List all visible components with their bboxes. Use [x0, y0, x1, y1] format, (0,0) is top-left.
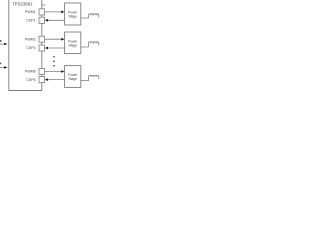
arrowhead into U1 left [4, 43, 7, 46]
svg-text:CSP1: CSP1 [26, 19, 35, 23]
svg-text:CSP6: CSP6 [26, 78, 35, 82]
arrowhead CSP6 into U1 [45, 78, 48, 81]
pin box PWM2 [39, 36, 45, 42]
arrowhead CSP1 into U1 [45, 19, 48, 22]
wire CSP6 from power stage 3 [48, 79, 65, 81]
svg-text:Stage: Stage [69, 15, 78, 19]
wire SW3 output [81, 77, 89, 81]
arrowhead PWM6 into power stage 3 [61, 70, 64, 73]
pin box CSP1 [39, 17, 45, 23]
inductor L2 [88, 42, 98, 46]
wire CSP2 from power stage 2 [48, 47, 65, 49]
arrowhead PWM1 into power stage 1 [61, 11, 64, 14]
arrowhead 2 into U1 left [4, 66, 7, 69]
wire SW2 output [81, 43, 89, 47]
IC U1 controller box (cropped at top) [9, 0, 42, 91]
arrowhead PWM2 into power stage 2 [61, 38, 64, 41]
inductor L3 [88, 75, 98, 79]
wire PWM1 to power stage 1 [45, 11, 62, 13]
power stage 1 box [65, 3, 81, 25]
svg-text:TPS53681: TPS53681 [12, 1, 33, 6]
svg-text:PWM6: PWM6 [25, 70, 36, 74]
wire SW1 output [81, 15, 89, 18]
svg-text:CSP2: CSP2 [26, 46, 35, 50]
wire PWM6 to power stage 3 [45, 71, 62, 73]
pin box PWM1 [39, 9, 45, 15]
power stage 2 box [65, 32, 81, 54]
label fragment 2 left edge (cropped net name) [0, 63, 1, 64]
svg-text:PWM1: PWM1 [25, 10, 36, 14]
pin box CSP2 [39, 45, 45, 51]
svg-text:Stage: Stage [69, 77, 78, 81]
pin box PWM6 [39, 68, 45, 74]
wire stub top right of U1 [42, 4, 45, 6]
ellipsis more phases [53, 56, 55, 67]
wire CSP1 from power stage 1 [48, 19, 65, 21]
inductor L1 [88, 14, 98, 18]
input wire 2 into U1 [0, 66, 5, 68]
wire PWM2 to power stage 2 [45, 38, 62, 40]
input wire into U1 [0, 43, 5, 45]
arrowhead CSP2 into U1 [45, 47, 48, 50]
power stage 3 box [65, 66, 81, 88]
pin box CSP6 [39, 77, 45, 83]
label fragment left edge (cropped net name) [0, 40, 2, 42]
svg-text:PWM2: PWM2 [25, 37, 36, 41]
svg-text:Stage: Stage [69, 44, 78, 48]
